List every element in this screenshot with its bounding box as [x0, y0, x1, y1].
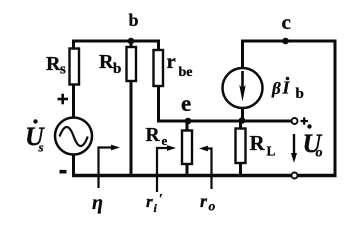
- svg-text:i: i: [154, 201, 158, 215]
- svg-text:b: b: [129, 10, 139, 30]
- sine wave: [60, 127, 88, 146]
- wire top-right (c net): [241, 40, 337, 43]
- arrow Uo: [293, 134, 295, 156]
- resistor rbe: [154, 50, 164, 86]
- svg-text:b: b: [113, 61, 121, 77]
- wire R_s to source: [72, 84, 75, 118]
- resistor Re: [182, 131, 192, 165]
- svg-text:R: R: [250, 131, 266, 155]
- node b dot: [128, 38, 135, 45]
- minus sign source: [60, 170, 67, 174]
- svg-text:η: η: [92, 192, 103, 214]
- source Us circle: [55, 118, 92, 155]
- wire R_b leads: [130, 41, 133, 48]
- wire middle (e net): [157, 120, 292, 123]
- svg-text:R: R: [46, 53, 61, 75]
- resistor RL: [236, 129, 246, 164]
- node e dot: [185, 118, 192, 125]
- plus sign output: [301, 117, 309, 124]
- svg-text:r: r: [167, 49, 176, 73]
- svg-text:L: L: [267, 144, 276, 159]
- svg-text:r: r: [146, 192, 153, 211]
- current source arrow: [241, 71, 244, 90]
- arrow ro: [206, 149, 212, 190]
- svg-text:be: be: [179, 65, 193, 80]
- wire current source bottom lead: [241, 107, 244, 121]
- svg-text:o: o: [316, 146, 323, 161]
- plus sign source: [58, 94, 69, 105]
- svg-text:e: e: [162, 133, 168, 148]
- svg-text:s: s: [60, 62, 66, 78]
- wire current source top lead: [241, 41, 244, 69]
- wire left rail upper: [72, 41, 75, 49]
- wire source to bottom: [72, 154, 75, 176]
- resistor Rs: [70, 49, 80, 85]
- wire right rail: [334, 40, 337, 177]
- svg-text:r: r: [200, 191, 208, 211]
- svg-text:s: s: [38, 140, 44, 155]
- svg-text:β: β: [271, 79, 281, 98]
- arrow ri': [157, 148, 169, 192]
- svg-text:R: R: [99, 51, 114, 73]
- junction dot current source / RL: [239, 117, 246, 124]
- output terminal bottom: [292, 173, 298, 179]
- wire R_e leads: [186, 121, 189, 131]
- node c dot: [282, 38, 289, 45]
- arrow eta: [99, 148, 114, 189]
- svg-text:c: c: [282, 10, 291, 34]
- wire R_L leads: [239, 121, 242, 129]
- svg-text:o: o: [209, 199, 216, 214]
- svg-text:R: R: [146, 125, 161, 146]
- svg-text:b: b: [296, 86, 304, 102]
- output terminal top: [292, 118, 298, 124]
- svg-text:e: e: [181, 91, 191, 116]
- resistor Rb: [127, 47, 137, 81]
- current source circle: [223, 68, 263, 108]
- wire bottom rail: [72, 174, 337, 178]
- wire top-left (b net): [72, 41, 159, 50]
- svg-text:I: I: [282, 78, 291, 98]
- wire r_be bottom lead: [157, 85, 159, 121]
- svg-text:′: ′: [159, 192, 163, 207]
